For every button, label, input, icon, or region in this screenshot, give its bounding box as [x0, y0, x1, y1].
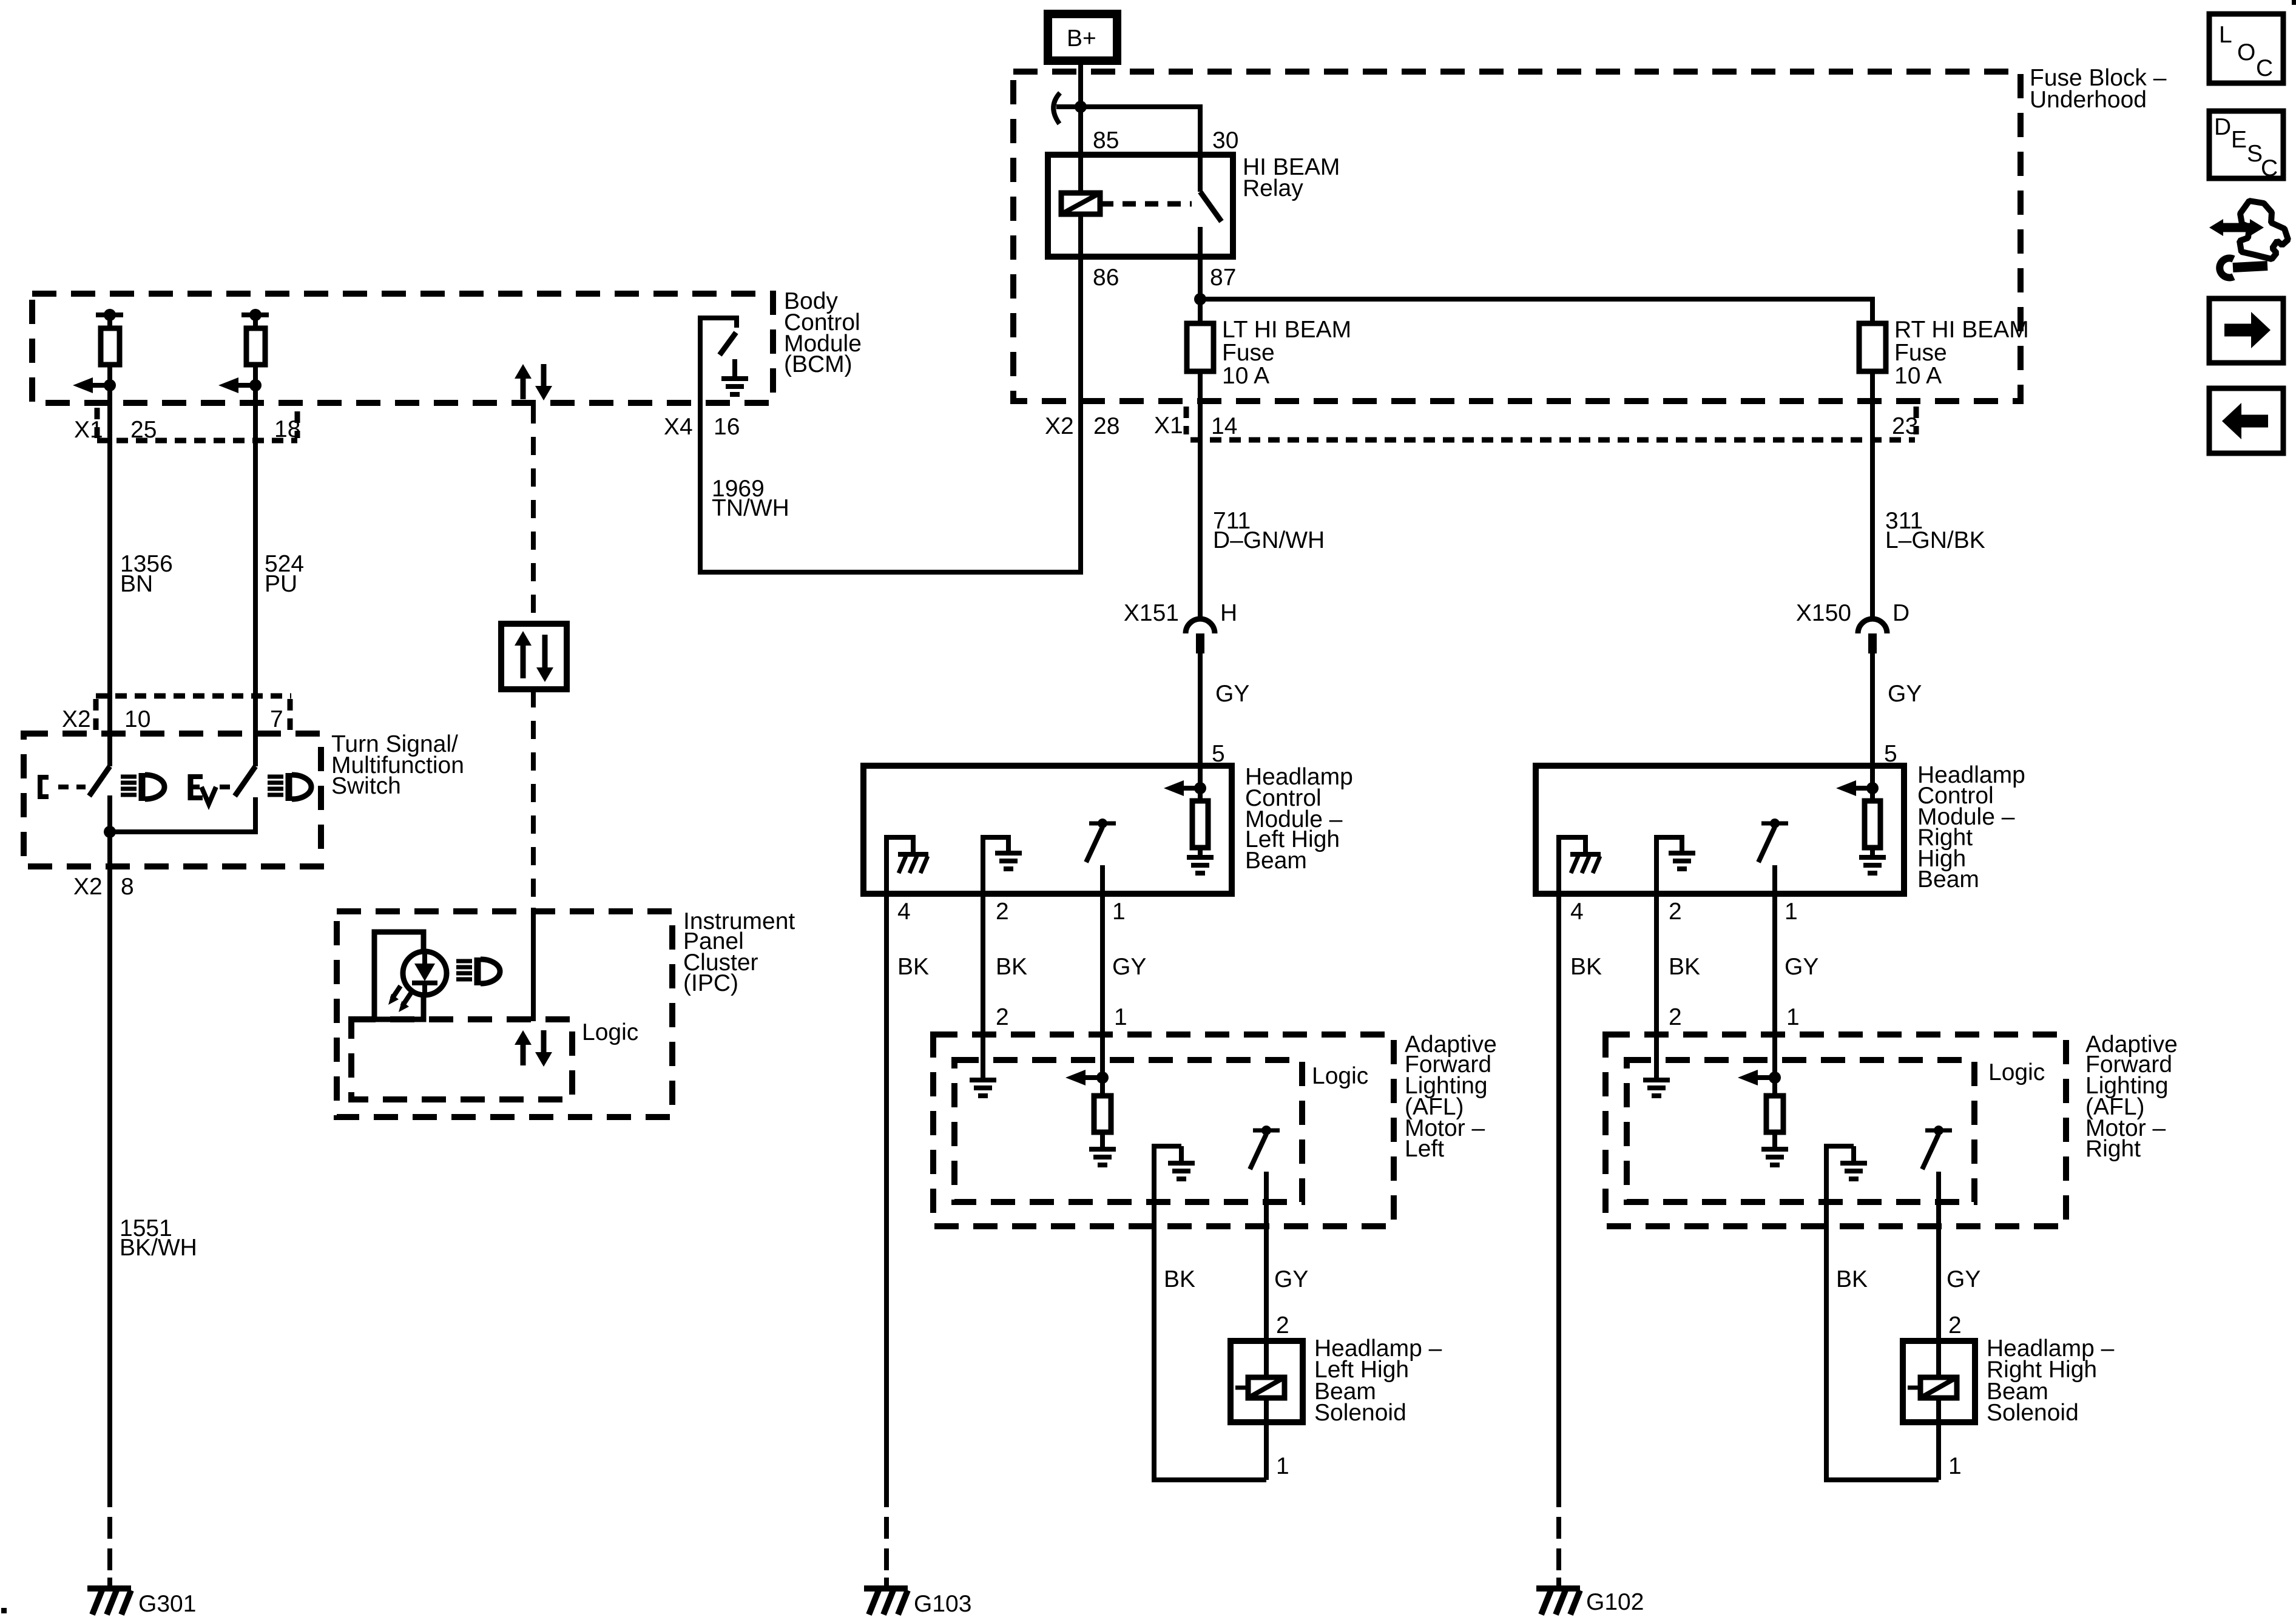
- connector X150: [1858, 619, 1887, 653]
- relay linkage dashed: [1100, 201, 1192, 207]
- fuse block underhood dashed box: [1013, 72, 2021, 401]
- svg-text:2: 2: [1948, 1312, 1962, 1338]
- svg-text:Logic: Logic: [582, 1019, 638, 1045]
- ground symbol under AFL left resistor: [1089, 1149, 1116, 1165]
- svg-text:(IPC): (IPC): [683, 970, 738, 996]
- svg-text:C: C: [2256, 55, 2273, 81]
- svg-text:7: 7: [270, 706, 283, 732]
- arrow signal HCM right pin5: [1836, 780, 1874, 796]
- solenoid coil left: [1235, 1377, 1285, 1398]
- svg-text:GY: GY: [1215, 681, 1249, 707]
- BCM resistor pin 18: [246, 315, 265, 365]
- svg-text:PU: PU: [265, 571, 297, 597]
- svg-text:14: 14: [1211, 413, 1237, 439]
- headlamp control module right high beam box: [1536, 766, 1904, 894]
- corner crop mark: [2292, 0, 2296, 5]
- resistor HCM right pin5: [1865, 788, 1880, 856]
- svg-text:D: D: [1893, 600, 1909, 626]
- resistor AFL right: [1766, 1078, 1783, 1148]
- AFL motor right dashed box: [1606, 1035, 2066, 1226]
- headlamp icon left: [121, 773, 164, 801]
- svg-text:(BCM): (BCM): [784, 351, 853, 377]
- svg-text:H: H: [1220, 600, 1237, 626]
- svg-text:G301: G301: [138, 1591, 196, 1617]
- mechanical dashed link left: [58, 785, 86, 789]
- svg-text:Left: Left: [1405, 1136, 1444, 1162]
- svg-text:1: 1: [1786, 1004, 1800, 1030]
- svg-text:BK: BK: [1669, 954, 1700, 980]
- sidebar LOC button: [2209, 14, 2283, 83]
- BCM ground switch driver X4-16: [700, 318, 737, 403]
- switch blade pin 10: [89, 766, 110, 796]
- arrow signal out pin25: [73, 377, 110, 393]
- ground bent wire AFL left BK: [1154, 1146, 1266, 1480]
- svg-text:86: 86: [1093, 265, 1119, 291]
- svg-text:Underhood: Underhood: [2030, 87, 2147, 113]
- BCM resistor R pin25 top bar: [96, 312, 123, 317]
- earth ground bent wire HCM left pin2: [983, 837, 1008, 894]
- dashed wire to G102: [1556, 1517, 1561, 1588]
- solenoid coil right: [1908, 1377, 1957, 1398]
- ground symbol AFL left BK: [1179, 1146, 1184, 1162]
- relay switch contact to pin 87: [1198, 227, 1203, 299]
- dashed wire to G103: [884, 1517, 889, 1588]
- sidebar DESC button: [2209, 111, 2283, 181]
- svg-text:GY: GY: [1112, 954, 1146, 980]
- switch blade pin 7: [235, 766, 255, 796]
- svg-text:Solenoid: Solenoid: [1987, 1400, 2079, 1426]
- ground symbol HCM left pin2: [995, 853, 1022, 869]
- svg-text:Fuse: Fuse: [1894, 340, 1947, 366]
- switch HCM left pin1: [1086, 819, 1116, 862]
- high beam indicator LED: [388, 951, 447, 1012]
- svg-text:TN/WH: TN/WH: [712, 495, 789, 521]
- node junction HCM left pin5: [1194, 782, 1206, 794]
- svg-text:2: 2: [1669, 1004, 1682, 1030]
- IPC instrument panel cluster dashed box: [337, 911, 672, 1117]
- ground symbol in BCM: [721, 379, 748, 394]
- ground G103: [864, 1588, 908, 1615]
- chassis ground symbol HCM left: [898, 854, 928, 873]
- headlamp right high beam solenoid box: [1903, 1341, 1975, 1422]
- BCM resistor pin 25: [101, 315, 120, 365]
- wire HCM right pin4 to G102: [1556, 894, 1561, 1507]
- node junction HCM right pin5: [1866, 782, 1879, 794]
- resistor AFL left: [1094, 1078, 1111, 1148]
- wire HCM left pin4 to G103: [884, 894, 889, 1507]
- svg-text:1: 1: [1784, 899, 1798, 925]
- ground symbol HCM right pin5: [1859, 857, 1886, 873]
- node junction AFL right pin1: [1769, 1072, 1781, 1084]
- node junction pin18: [249, 379, 262, 391]
- ground symbol AFL left pin2: [970, 1080, 996, 1096]
- svg-text:BK/WH: BK/WH: [120, 1235, 197, 1261]
- svg-text:Right: Right: [2085, 1136, 2141, 1162]
- wire resistor to pin 18: [253, 365, 258, 403]
- svg-text:L–GN/BK: L–GN/BK: [1885, 527, 1985, 553]
- svg-text:D: D: [2214, 114, 2231, 140]
- svg-text:2: 2: [1276, 1312, 1289, 1338]
- fuse RT HI BEAM 10A: [1859, 323, 1886, 371]
- svg-text:16: 16: [714, 414, 740, 440]
- wire HCM right pin2 to AFL: [1654, 894, 1659, 1079]
- wire X150 to right module pin 5: [1870, 653, 1875, 789]
- IPC logic dashed box: [351, 1019, 572, 1099]
- IPC indicator holder box: [374, 932, 424, 1019]
- flash-to-pass lever icon Ev: [191, 774, 216, 804]
- turn signal multifunction switch dashed box: [24, 734, 321, 866]
- node junction pin 87 to bus: [1194, 293, 1206, 305]
- svg-text:10 A: 10 A: [1894, 363, 1942, 389]
- svg-text:BK: BK: [1570, 954, 1602, 980]
- wire solenoid left pin1: [1264, 1398, 1269, 1480]
- relay switch blade: [1200, 192, 1221, 221]
- mechanical bracket: [40, 777, 49, 797]
- wire AFL right switch to solenoid: [1936, 1172, 1941, 1377]
- svg-text:G102: G102: [1586, 1589, 1644, 1615]
- headlamp left high beam solenoid box: [1231, 1341, 1303, 1422]
- svg-text:X2: X2: [73, 874, 103, 900]
- svg-text:Fuse: Fuse: [1222, 340, 1275, 366]
- node dot pin25 bar: [104, 309, 116, 321]
- relay switch pin30 stub: [1198, 155, 1203, 192]
- wire B+ to relay coil: [1078, 61, 1083, 193]
- svg-text:Beam: Beam: [1245, 848, 1307, 874]
- page period mark: [1, 1608, 7, 1613]
- arrow signal out pin18: [218, 377, 256, 393]
- svg-text:GY: GY: [1274, 1266, 1308, 1292]
- node junction turn signal output: [104, 826, 116, 838]
- svg-text:G103: G103: [914, 1591, 971, 1617]
- mechanical dashed link middle: [220, 785, 233, 789]
- svg-text:10: 10: [124, 706, 150, 732]
- svg-text:10 A: 10 A: [1222, 363, 1269, 389]
- switch AFL right GY: [1922, 1126, 1952, 1169]
- wire X151 to left module pin 5: [1198, 653, 1203, 789]
- wire AFL left switch to solenoid: [1264, 1172, 1269, 1377]
- switch contact wire pin 10: [107, 795, 112, 832]
- svg-text:30: 30: [1212, 127, 1238, 154]
- svg-text:X151: X151: [1124, 600, 1179, 626]
- battery feed B+ terminal: [1048, 14, 1117, 61]
- svg-text:X2: X2: [62, 706, 91, 732]
- node dot pin18 bar: [249, 309, 262, 321]
- ground symbol HCM right pin2: [1669, 853, 1695, 869]
- IPC headlamp icon: [456, 957, 500, 985]
- svg-text:2: 2: [1669, 899, 1682, 925]
- svg-text:85: 85: [1093, 127, 1119, 154]
- svg-text:BK: BK: [1164, 1266, 1195, 1292]
- switch AFL left GY: [1250, 1126, 1280, 1169]
- svg-text:8: 8: [121, 874, 134, 900]
- node junction on B+ feed: [1075, 101, 1087, 113]
- arrow signal AFL right pin1: [1738, 1070, 1775, 1085]
- BCM logic up-down arrows: [515, 364, 552, 400]
- chassis ground bent wire HCM left pin4: [886, 837, 913, 894]
- svg-text:1: 1: [1276, 1453, 1289, 1479]
- wire LT fuse out: [1198, 371, 1203, 619]
- svg-text:2: 2: [996, 1004, 1009, 1030]
- svg-text:O: O: [2237, 39, 2255, 66]
- svg-text:X4: X4: [664, 414, 693, 440]
- ground symbol AFL right pin2: [1643, 1080, 1670, 1096]
- svg-text:BK: BK: [897, 954, 929, 980]
- node junction pin25: [104, 379, 116, 391]
- IPC serial data wire: [531, 908, 536, 1021]
- AFL motor left dashed box: [933, 1035, 1394, 1226]
- serial data dashed wire BCM to IPC: [531, 405, 536, 624]
- splice curl at B+ junction: [1053, 93, 1060, 124]
- wire 1356 BN pin25 to turn signal switch: [107, 403, 112, 766]
- svg-text:LT HI BEAM: LT HI BEAM: [1222, 317, 1351, 343]
- turn signal connector dotted outline X2: [96, 694, 291, 699]
- AFL right logic dashed box: [1627, 1060, 1974, 1202]
- svg-text:Switch: Switch: [331, 773, 401, 799]
- fuse block connector dotted line: [1190, 437, 1915, 443]
- svg-text:BK: BK: [996, 954, 1027, 980]
- wire RT fuse out: [1870, 371, 1875, 619]
- svg-text:GY: GY: [1947, 1266, 1980, 1292]
- svg-text:28: 28: [1093, 413, 1119, 439]
- svg-text:1: 1: [1948, 1453, 1962, 1479]
- svg-text:X150: X150: [1796, 600, 1851, 626]
- ground symbol AFL right BK: [1851, 1146, 1856, 1162]
- svg-text:Beam: Beam: [1917, 866, 1979, 893]
- svg-text:4: 4: [1570, 899, 1584, 925]
- svg-text:RT HI BEAM: RT HI BEAM: [1894, 317, 2029, 343]
- ground G102: [1536, 1588, 1580, 1615]
- svg-text:C: C: [2261, 155, 2278, 181]
- svg-text:X1: X1: [1154, 413, 1183, 439]
- wire bus to right fuse: [1200, 299, 1872, 323]
- sidebar next arrow button: [2209, 299, 2283, 363]
- wire 524 PU pin18 to turn signal switch: [253, 403, 258, 766]
- svg-text:4: 4: [897, 899, 911, 925]
- serial data link box: [501, 624, 567, 689]
- resistor HCM left pin5: [1192, 788, 1208, 856]
- ground G301: [87, 1588, 131, 1615]
- svg-text:X2: X2: [1045, 413, 1074, 439]
- wire relay 86 down and left to BCM: [700, 214, 1081, 572]
- wire HCM left pin1 to AFL: [1100, 865, 1105, 1079]
- wire resistor to pin 25: [107, 365, 112, 403]
- wire out of switch to X2-8: [107, 832, 112, 1507]
- svg-text:GY: GY: [1888, 681, 1922, 707]
- BCM resistor R pin18 top bar: [241, 312, 269, 317]
- node junction AFL left pin1: [1096, 1072, 1109, 1084]
- arrow signal HCM left pin5: [1164, 780, 1201, 796]
- svg-text:1: 1: [1114, 1004, 1127, 1030]
- svg-text:E: E: [2231, 127, 2247, 153]
- chassis ground bent wire HCM right pin4: [1559, 837, 1585, 894]
- relay HI BEAM Relay box: [1048, 155, 1233, 257]
- svg-text:GY: GY: [1784, 954, 1818, 980]
- earth ground bent wire HCM right pin2: [1656, 837, 1682, 894]
- connector X151: [1186, 619, 1215, 653]
- svg-text:B+: B+: [1067, 25, 1096, 52]
- wire HCM right pin1 to AFL: [1772, 865, 1777, 1079]
- headlamp control module left high beam box: [863, 766, 1232, 894]
- svg-text:2: 2: [996, 899, 1009, 925]
- wire junction to relay pin 30: [1081, 107, 1200, 155]
- sidebar back arrow button: [2209, 388, 2283, 453]
- AFL left logic dashed box: [954, 1060, 1302, 1202]
- wire HCM left pin2 to AFL: [981, 894, 985, 1079]
- wire solenoid right pin1: [1936, 1398, 1941, 1480]
- svg-text:Logic: Logic: [1312, 1063, 1368, 1089]
- arrow signal AFL left pin1: [1065, 1070, 1103, 1085]
- svg-text:D–GN/WH: D–GN/WH: [1213, 527, 1325, 553]
- ground bent wire AFL right BK: [1826, 1146, 1939, 1480]
- fuse LT HI BEAM 10A: [1187, 323, 1214, 371]
- switch HCM right pin1: [1758, 819, 1788, 862]
- serial data dashed wire to IPC: [531, 689, 536, 911]
- svg-text:Relay: Relay: [1243, 175, 1303, 201]
- ground symbol under AFL right resistor: [1761, 1149, 1788, 1165]
- sidebar hand double-arrow wrench icon: [2209, 201, 2288, 278]
- BCM connector dotted outline: [97, 438, 297, 444]
- ground symbol HCM left pin5: [1187, 857, 1214, 873]
- BCM Body Control Module dashed box: [32, 294, 773, 403]
- svg-text:BK: BK: [1836, 1266, 1868, 1292]
- dashed wire to G301: [107, 1517, 112, 1588]
- switch contact wire pin 7: [110, 797, 255, 832]
- chassis ground symbol HCM right: [1570, 854, 1601, 873]
- svg-text:L: L: [2219, 22, 2232, 48]
- svg-text:1: 1: [1112, 899, 1126, 925]
- headlamp icon right: [268, 773, 311, 801]
- svg-text:Logic: Logic: [1988, 1059, 2045, 1085]
- svg-text:87: 87: [1210, 265, 1236, 291]
- svg-text:Solenoid: Solenoid: [1314, 1400, 1406, 1426]
- svg-text:BN: BN: [120, 571, 153, 597]
- IPC logic up-down arrows: [515, 1030, 552, 1067]
- relay coil: [1061, 193, 1100, 214]
- wire 87 to LT fuse: [1198, 299, 1203, 323]
